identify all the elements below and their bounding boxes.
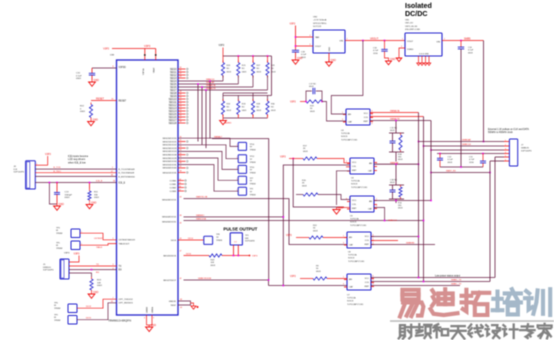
svg-text:SMBCLKA: SMBCLKA bbox=[196, 218, 207, 221]
wire U6 VCC right bbox=[371, 236, 419, 238]
svg-text:V3P3: V3P3 bbox=[290, 276, 296, 278]
resistor R22 bbox=[309, 236, 323, 239]
wire SMB5 bbox=[442, 40, 484, 42]
svg-text:67: 67 bbox=[111, 171, 113, 173]
svg-text:0603: 0603 bbox=[94, 197, 100, 199]
resistor R12 bbox=[90, 103, 92, 105]
ground (C18) bbox=[295, 58, 297, 60]
ground (R13) bbox=[91, 292, 93, 294]
svg-text:1: 1 bbox=[36, 163, 37, 165]
svg-text:4: 4 bbox=[372, 123, 373, 125]
svg-text:VBT1-S5-S5: VBT1-S5-S5 bbox=[405, 26, 418, 28]
resistor R43 bbox=[209, 254, 222, 257]
svg-text:39: 39 bbox=[180, 166, 182, 168]
svg-text:500kHz to 400kHz clock: 500kHz to 400kHz clock bbox=[488, 131, 513, 134]
svg-text:SEG27/DIO7: SEG27/DIO7 bbox=[163, 280, 177, 282]
svg-text:3: 3 bbox=[343, 284, 344, 286]
testpoint column boxes bbox=[238, 142, 246, 150]
optocoupler U4 bbox=[350, 158, 374, 174]
svg-text:TPMW: TPMW bbox=[56, 233, 62, 235]
ground (C10) bbox=[91, 80, 93, 82]
svg-text:V3P3: V3P3 bbox=[64, 253, 70, 255]
wire J7 pin4 bbox=[437, 153, 504, 155]
ground (U1 bottom) bbox=[148, 325, 150, 327]
svg-text:43: 43 bbox=[180, 76, 182, 78]
svg-text:57: 57 bbox=[180, 118, 182, 120]
svg-text:4: 4 bbox=[113, 268, 114, 270]
svg-text:43: 43 bbox=[180, 238, 182, 240]
svg-text:33: 33 bbox=[180, 146, 182, 148]
svg-text:47: 47 bbox=[180, 251, 182, 253]
ground (C16) bbox=[388, 60, 390, 62]
svg-text:TLP112APCT-ND: TLP112APCT-ND bbox=[347, 303, 364, 306]
svg-text:S1P100P6: S1P100P6 bbox=[43, 270, 54, 272]
wire DIO6 run bbox=[184, 255, 210, 257]
svg-text:VB7+5V: VB7+5V bbox=[405, 23, 414, 25]
wire TX bbox=[69, 265, 117, 267]
wire V3P3D pin to C10 bbox=[92, 67, 117, 69]
svg-text:TPMW: TPMW bbox=[56, 248, 62, 250]
testpoint TP6 bbox=[68, 304, 77, 313]
svg-text:3: 3 bbox=[310, 44, 311, 46]
svg-text:1: 1 bbox=[237, 168, 238, 170]
wire J7 pin5 bbox=[495, 156, 504, 158]
svg-text:W: W bbox=[54, 305, 56, 307]
svg-text:GND: GND bbox=[297, 57, 303, 60]
svg-text:0.1uF: 0.1uF bbox=[301, 54, 307, 56]
connector TP1 pulse bbox=[230, 233, 242, 245]
svg-text:V3P3: V3P3 bbox=[219, 45, 225, 47]
svg-text:TX: TX bbox=[119, 266, 122, 268]
svg-text:VIN: VIN bbox=[436, 42, 440, 44]
svg-text:GND: GND bbox=[91, 202, 97, 205]
svg-text:AGND: AGND bbox=[225, 122, 232, 125]
wires TP1 pins down bbox=[233, 245, 235, 256]
svg-text:E_TCK: E_TCK bbox=[54, 167, 62, 169]
svg-text:38: 38 bbox=[180, 215, 182, 217]
svg-text:TPMW: TPMW bbox=[250, 150, 256, 152]
svg-text:RX: RX bbox=[96, 272, 100, 274]
resistor R17 bbox=[303, 157, 317, 160]
vertical SMBD_TX rail bbox=[494, 157, 496, 278]
svg-text:6: 6 bbox=[373, 276, 374, 278]
svg-text:TEST: TEST bbox=[170, 305, 176, 307]
svg-text:SEG44/DIO14: SEG44/DIO14 bbox=[162, 216, 177, 218]
vertical SMBC_TX rail bbox=[489, 161, 491, 282]
connector J8 ICE bbox=[26, 161, 36, 189]
wire U7 VCC right bbox=[371, 277, 495, 279]
svg-text:ICE_E: ICE_E bbox=[96, 181, 103, 183]
svg-text:RESET: RESET bbox=[96, 97, 105, 100]
svg-text:EMT: EMT bbox=[364, 121, 369, 123]
wire U4 AN bbox=[374, 163, 419, 165]
wire SMBCLKA long bbox=[184, 220, 424, 222]
svg-text:SOIC8: SOIC8 bbox=[341, 136, 348, 138]
wire cap ground bus bbox=[440, 166, 483, 168]
vertical U3EMT drop bbox=[430, 121, 432, 201]
svg-text:Isolated: Isolated bbox=[405, 2, 432, 10]
wire U5 EMT to ground bbox=[337, 207, 351, 209]
svg-text:GND31: GND31 bbox=[169, 301, 177, 303]
wire E_TCLK bbox=[35, 168, 116, 170]
wire bottom bus bbox=[223, 117, 268, 119]
wire V3P3 stub into V3P3A pin bbox=[144, 49, 146, 61]
svg-text:31: 31 bbox=[180, 140, 182, 142]
svg-text:38: 38 bbox=[180, 171, 182, 173]
svg-text:VOUT: VOUT bbox=[315, 46, 322, 48]
svg-text:SEG23/DIO23: SEG23/DIO23 bbox=[163, 148, 178, 150]
svg-text:SEG21/DIO21: SEG21/DIO21 bbox=[163, 141, 178, 143]
svg-text:S1P100P6: S1P100P6 bbox=[14, 172, 25, 174]
svg-text:1: 1 bbox=[237, 145, 238, 147]
wire U4 COL stub bbox=[346, 166, 350, 168]
svg-text:3: 3 bbox=[113, 264, 114, 266]
svg-text:5: 5 bbox=[113, 238, 114, 240]
svg-text:GND: GND bbox=[93, 119, 99, 122]
svg-text:VCC: VCC bbox=[365, 278, 370, 280]
wire U4 EMT to ground rail bbox=[337, 171, 351, 205]
svg-text:10K: 10K bbox=[211, 262, 215, 264]
svg-text:TLP112A: TLP112A bbox=[348, 254, 357, 257]
svg-text:3: 3 bbox=[401, 46, 402, 48]
U1 bottom ground pins bbox=[146, 315, 148, 325]
svg-text:14: 14 bbox=[179, 179, 181, 181]
capacitor C15 / resistor R18 network bbox=[395, 121, 397, 134]
svg-text:E_TDO: E_TDO bbox=[54, 171, 62, 173]
svg-text:SMBT_RX: SMBT_RX bbox=[446, 171, 456, 173]
svg-text:TMUX: TMUX bbox=[96, 247, 103, 249]
svg-text:SMBTXLOB: SMBTXLOB bbox=[196, 197, 208, 199]
svg-text:SEG25/DIO6: SEG25/DIO6 bbox=[163, 255, 177, 257]
wire ICE_E bbox=[35, 182, 116, 184]
svg-text:6: 6 bbox=[505, 160, 506, 162]
capacitor C17 bbox=[306, 91, 312, 102]
wire SMBHIO to U4 COL bbox=[184, 165, 351, 217]
svg-text:TLP112A: TLP112A bbox=[351, 180, 360, 183]
U1 GND31/TEST stubs bbox=[178, 301, 191, 305]
svg-text:TLP112A: TLP112A bbox=[347, 297, 356, 300]
svg-text:SEG22/DIO22: SEG22/DIO22 bbox=[163, 145, 178, 147]
svg-text:17: 17 bbox=[179, 189, 181, 191]
svg-text:4: 4 bbox=[373, 284, 374, 286]
svg-text:51: 51 bbox=[180, 100, 182, 102]
svg-text:RX: RX bbox=[119, 270, 123, 272]
wire E_TDIO bbox=[35, 172, 116, 174]
svg-text:EMT: EMT bbox=[352, 208, 357, 210]
svg-text:1: 1 bbox=[376, 199, 377, 201]
svg-text:ICE: ICE bbox=[14, 169, 18, 171]
wire VROUT to U3 AN bbox=[331, 41, 363, 115]
svg-text:SOIC8: SOIC8 bbox=[351, 184, 358, 186]
svg-text:0603: 0603 bbox=[97, 285, 103, 287]
resistors R24 R26 R28 R30 bbox=[222, 99, 224, 101]
svg-text:8: 8 bbox=[113, 66, 114, 68]
svg-text:DIO1: DIO1 bbox=[86, 317, 92, 319]
connector J5 DEBUG bbox=[60, 259, 69, 279]
svg-text:2: 2 bbox=[505, 145, 506, 147]
svg-text:TAB: TAB bbox=[315, 36, 320, 39]
svg-text:GND: GND bbox=[151, 324, 157, 327]
svg-text:5: 5 bbox=[373, 239, 374, 241]
ground (VGND) bbox=[398, 57, 400, 59]
wire U7 EMT right bbox=[371, 285, 460, 287]
svg-text:2: 2 bbox=[347, 39, 348, 41]
svg-text:G G G GND: G G G GND bbox=[419, 54, 429, 56]
wire J7 pin3 bbox=[431, 149, 504, 151]
svg-text:SOIC8: SOIC8 bbox=[350, 222, 357, 224]
svg-text:1: 1 bbox=[81, 243, 82, 245]
wire E_RXTX bbox=[35, 175, 116, 177]
svg-text:TLP112A: TLP112A bbox=[341, 132, 350, 135]
svg-text:SPX1117M3-L: SPX1117M3-L bbox=[313, 23, 328, 25]
svg-text:SEG30/DIO30: SEG30/DIO30 bbox=[163, 161, 178, 163]
wire U7 COL right bbox=[371, 281, 490, 283]
svg-text:TMUXOUT: TMUXOUT bbox=[119, 243, 130, 245]
svg-text:VCC: VCC bbox=[352, 200, 357, 202]
svg-text:54: 54 bbox=[180, 109, 182, 111]
wire DIO2 bbox=[77, 299, 117, 308]
resistors R23 R25 R27 R29 bbox=[222, 56, 224, 63]
svg-text:4.7uF: 4.7uF bbox=[373, 50, 379, 52]
wire J8 pin1 to V3P3 bbox=[35, 164, 47, 166]
resistor R13 bbox=[91, 277, 93, 279]
U1 SEG41 pin stub bbox=[178, 172, 186, 174]
svg-text:40: 40 bbox=[180, 223, 182, 225]
svg-text:COM0: COM0 bbox=[170, 180, 177, 182]
capacitor C13 bbox=[56, 183, 58, 193]
wire DIO1 bbox=[77, 303, 117, 320]
svg-text:AN: AN bbox=[349, 236, 352, 239]
svg-text:0603: 0603 bbox=[80, 111, 86, 113]
svg-text:VCC: VCC bbox=[352, 162, 357, 164]
svg-text:0.1uF: 0.1uF bbox=[448, 159, 454, 161]
svg-text:15: 15 bbox=[179, 182, 181, 184]
wire U6 EMT right bbox=[371, 244, 435, 246]
testpoint TP9 bbox=[68, 316, 77, 325]
svg-text:AN: AN bbox=[369, 200, 372, 203]
svg-text:E_TDIO/SEG49: E_TDIO/SEG49 bbox=[119, 173, 135, 175]
svg-text:48: 48 bbox=[180, 91, 182, 93]
svg-text:SMBALTA: SMBALTA bbox=[390, 110, 400, 113]
svg-text:SEG45/DIO15: SEG45/DIO15 bbox=[162, 221, 177, 223]
optocoupler U6 bbox=[347, 232, 371, 248]
svg-text:SMBHID: SMBHID bbox=[406, 243, 415, 245]
wires SMB nets to pull resistors bbox=[222, 76, 224, 82]
wire VROUT bbox=[345, 40, 405, 42]
svg-text:V3P3A: V3P3A bbox=[142, 68, 145, 75]
U1 SEG pin stubs with no-connects bbox=[178, 68, 186, 70]
svg-text:E_TCLK/SEG48: E_TCLK/SEG48 bbox=[119, 169, 136, 171]
svg-text:SOIC8: SOIC8 bbox=[348, 258, 355, 260]
wire CKTEST bbox=[80, 233, 117, 240]
svg-text:61: 61 bbox=[112, 98, 114, 100]
svg-text:SEG40/DIO40: SEG40/DIO40 bbox=[163, 168, 178, 170]
svg-text:PULSE OUTPUT: PULSE OUTPUT bbox=[223, 227, 257, 232]
svg-text:4: 4 bbox=[505, 152, 506, 154]
svg-text:3: 3 bbox=[505, 149, 506, 151]
svg-text:COM2: COM2 bbox=[170, 187, 177, 189]
wire SMBALT loop to lower bus bbox=[212, 139, 269, 280]
svg-text:U1B: U1B bbox=[110, 55, 115, 57]
svg-text:TLP112APCT-ND: TLP112APCT-ND bbox=[350, 224, 367, 227]
inter-row wires bbox=[223, 92, 268, 94]
svg-text:5: 5 bbox=[373, 280, 374, 282]
svg-text:GND: GND bbox=[329, 47, 331, 52]
svg-text:0.1uF: 0.1uF bbox=[76, 75, 82, 77]
svg-text:SMBDAT: SMBDAT bbox=[390, 161, 399, 164]
svg-text:GND: GND bbox=[390, 58, 396, 61]
svg-text:S1P100P6: S1P100P6 bbox=[521, 151, 532, 153]
wire RX bbox=[69, 269, 117, 271]
svg-text:EMT: EMT bbox=[365, 244, 370, 246]
optocoupler U5 bbox=[350, 196, 374, 212]
svg-text:W: W bbox=[56, 230, 58, 232]
svg-text:49: 49 bbox=[180, 94, 182, 96]
svg-text:1: 1 bbox=[81, 231, 82, 233]
svg-text:GNDA: GNDA bbox=[151, 306, 154, 313]
svg-text:SEG43/DIO13: SEG43/DIO13 bbox=[162, 199, 177, 201]
svg-text:S1P100R3: S1P100R3 bbox=[245, 241, 256, 243]
svg-text:Low-power status output: Low-power status output bbox=[435, 274, 460, 277]
svg-text:CKTEST/SEG19: CKTEST/SEG19 bbox=[119, 240, 136, 242]
svg-text:GND: GND bbox=[93, 291, 99, 294]
wire TMUX bbox=[80, 244, 117, 246]
wire to VR2 VOUT bbox=[296, 45, 314, 47]
svg-text:V3P3: V3P3 bbox=[290, 101, 296, 103]
wire V3P3 stub into VBAT pin bbox=[155, 49, 157, 61]
wire RESET bbox=[91, 100, 117, 102]
testpoint TP3 bbox=[71, 229, 80, 238]
svg-text:3: 3 bbox=[342, 119, 343, 121]
svg-text:SEG28/DIO28: SEG28/DIO28 bbox=[163, 155, 178, 157]
wire U5 AN right bbox=[374, 200, 431, 202]
wire to VR2 TAB bbox=[296, 36, 314, 38]
optocoupler U3 bbox=[346, 109, 370, 125]
svg-text:41: 41 bbox=[180, 70, 182, 72]
svg-text:W: W bbox=[54, 317, 56, 319]
svg-text:SEG29/DIO29: SEG29/DIO29 bbox=[163, 158, 178, 160]
svg-text:2: 2 bbox=[112, 167, 113, 169]
wire SMBT_RX right segment bbox=[431, 172, 490, 174]
svg-text:SOT223: SOT223 bbox=[313, 26, 322, 28]
svg-text:SMBALTA: SMBALTA bbox=[206, 84, 216, 87]
wire U3 EMT out bbox=[370, 120, 431, 122]
svg-text:SMBCLK: SMBCLK bbox=[462, 144, 472, 146]
svg-text:AN: AN bbox=[349, 278, 352, 281]
svg-text:V3P3: V3P3 bbox=[280, 157, 286, 159]
svg-text:SMBALT: SMBALT bbox=[214, 135, 223, 138]
svg-text:DIO4: DIO4 bbox=[188, 238, 194, 240]
svg-text:VCC: VCC bbox=[364, 113, 369, 115]
svg-text:V3P3: V3P3 bbox=[252, 256, 258, 258]
svg-text:SEG24/DIO24: SEG24/DIO24 bbox=[163, 151, 178, 153]
svg-text:3: 3 bbox=[343, 243, 344, 245]
svg-text:V3P3: V3P3 bbox=[103, 48, 110, 51]
svg-text:E_RXTX/SEG50: E_RXTX/SEG50 bbox=[119, 176, 136, 178]
svg-text:0.1uF: 0.1uF bbox=[468, 50, 474, 52]
svg-text:10K: 10K bbox=[97, 282, 101, 284]
svg-text:EMT: EMT bbox=[352, 170, 357, 172]
svg-text:GND: GND bbox=[59, 203, 65, 206]
svg-text:WH: WH bbox=[245, 238, 249, 240]
svg-text:SMBDAT: SMBDAT bbox=[462, 139, 472, 142]
ground (R12) bbox=[90, 120, 92, 122]
svg-text:SMBHIO: SMBHIO bbox=[196, 215, 205, 217]
vertical SMBCLK drop bbox=[423, 117, 425, 282]
svg-text:TLP112APCT-ND: TLP112APCT-ND bbox=[341, 138, 358, 141]
svg-text:6: 6 bbox=[372, 111, 373, 113]
svg-text:1000pF: 1000pF bbox=[65, 194, 73, 196]
svg-text:52: 52 bbox=[180, 103, 182, 105]
svg-text:VOUT: VOUT bbox=[407, 41, 414, 43]
svg-text:OPT_RX/DIO1: OPT_RX/DIO1 bbox=[119, 303, 134, 305]
capacitor C10 bbox=[91, 68, 93, 73]
svg-text:RESET: RESET bbox=[119, 101, 127, 103]
svg-text:V3P3: V3P3 bbox=[74, 253, 81, 256]
svg-text:TLP112A: TLP112A bbox=[350, 218, 359, 221]
ground (U5) bbox=[336, 208, 338, 210]
svg-text:GND: GND bbox=[94, 79, 100, 82]
svg-text:1: 1 bbox=[343, 236, 344, 238]
svg-text:DIO2: DIO2 bbox=[86, 306, 92, 308]
svg-text:V3P3: V3P3 bbox=[45, 153, 52, 156]
svg-text:VIN: VIN bbox=[339, 41, 343, 43]
svg-text:43: 43 bbox=[180, 197, 182, 199]
dcdc converter VB1 bbox=[405, 33, 442, 56]
svg-text:TPMW: TPMW bbox=[250, 183, 256, 185]
svg-text:DC/DC: DC/DC bbox=[405, 10, 427, 18]
svg-text:0603: 0603 bbox=[76, 78, 82, 80]
svg-text:DIO4: DIO4 bbox=[171, 240, 177, 242]
capacitor C11 bbox=[482, 154, 484, 162]
svg-text:External 1.1K pullups on CLK a: External 1.1K pullups on CLK and DATA bbox=[488, 128, 529, 131]
svg-text:42: 42 bbox=[180, 73, 182, 75]
wire C13 drop bbox=[49, 183, 57, 205]
svg-text:V3P3D: V3P3D bbox=[119, 67, 127, 69]
svg-text:GND: GND bbox=[338, 207, 344, 210]
wire V3P5 drop to U5 EMT row bbox=[293, 159, 344, 208]
svg-text:1: 1 bbox=[402, 39, 403, 41]
svg-text:OPT_TX/DIO2: OPT_TX/DIO2 bbox=[119, 299, 134, 301]
wire V3P3 bus bbox=[223, 55, 272, 57]
wire U7 CAT from long bus bbox=[269, 285, 348, 287]
svg-text:TLP112APCT-ND: TLP112APCT-ND bbox=[351, 186, 368, 189]
svg-text:TPMW: TPMW bbox=[250, 194, 256, 196]
svg-text:5: 5 bbox=[372, 115, 373, 117]
svg-text:16: 16 bbox=[179, 186, 181, 188]
svg-text:TLP112APCT-ND: TLP112APCT-ND bbox=[348, 260, 365, 263]
svg-text:TPMW: TPMW bbox=[216, 240, 222, 242]
wire U3 VCC out bbox=[370, 112, 419, 114]
svg-text:SMBCKDIOB: SMBCKDIOB bbox=[198, 278, 212, 280]
wire R19 to U3 CAT bbox=[322, 102, 346, 122]
junction dots on V3P3 stubs bbox=[144, 54, 146, 56]
svg-text:COM1: COM1 bbox=[170, 184, 177, 186]
svg-text:SEG20/DIO20: SEG20/DIO20 bbox=[163, 138, 178, 140]
svg-text:when ICE_E low: when ICE_E low bbox=[68, 162, 86, 165]
svg-text:COM3: COM3 bbox=[170, 191, 177, 193]
wire U6 COL right bbox=[371, 240, 398, 242]
wires SEG/DIO pins to testpoints bbox=[178, 138, 238, 146]
svg-text:1: 1 bbox=[237, 189, 238, 191]
microcontroller U1 78M6613 body bbox=[117, 60, 179, 315]
svg-text:53: 53 bbox=[180, 106, 182, 108]
svg-text:CKTEST: CKTEST bbox=[94, 238, 103, 240]
svg-text:0603: 0603 bbox=[65, 197, 71, 199]
wire J7 pin2 bbox=[424, 145, 505, 147]
svg-text:VBAT: VBAT bbox=[153, 67, 156, 73]
watermark line1 bbox=[402, 290, 418, 300]
